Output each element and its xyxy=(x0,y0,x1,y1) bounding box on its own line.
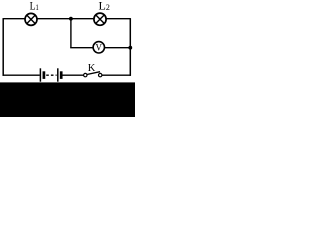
battery cell 1 long plate xyxy=(39,68,41,81)
battery cell 2 short plate xyxy=(60,71,63,79)
svg-text:V: V xyxy=(96,42,103,52)
wire: right vertical xyxy=(129,18,131,76)
wire: middle branch vertical xyxy=(70,19,72,48)
battery cell 2 long plate xyxy=(57,68,59,81)
wire: battery to switch segment xyxy=(62,74,84,76)
battery cell 1 short plate xyxy=(43,71,46,79)
wire: battery dashed middle xyxy=(46,74,56,76)
switch K right terminal xyxy=(99,73,102,76)
node junction right xyxy=(128,46,132,50)
background xyxy=(0,0,135,117)
switch K lever xyxy=(87,72,100,75)
switch K left terminal xyxy=(84,73,87,76)
svg-text:K: K xyxy=(88,63,96,74)
black bar bottom xyxy=(0,82,135,117)
wire: left vertical xyxy=(2,18,4,76)
wire: voltmeter branch horizontal xyxy=(70,47,130,49)
lamp L2 xyxy=(94,13,106,25)
voltmeter V xyxy=(93,42,104,53)
wire: top horizontal xyxy=(3,18,130,20)
wire: bottom left segment xyxy=(3,74,40,76)
lamp L1 xyxy=(25,13,37,25)
wire: switch to right corner segment xyxy=(102,74,131,76)
node junction top xyxy=(69,17,73,21)
